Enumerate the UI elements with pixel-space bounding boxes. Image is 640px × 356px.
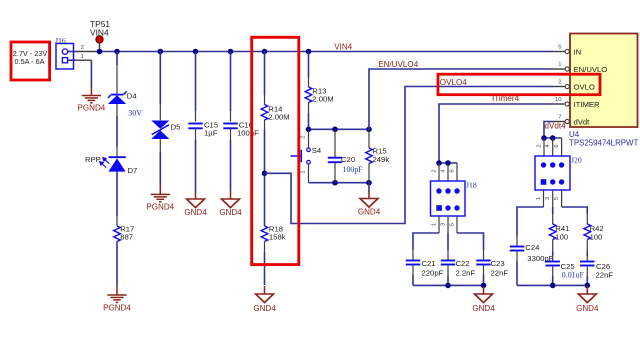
svg-text:2: 2 bbox=[431, 169, 437, 172]
wire J18 bottom stubs bbox=[439, 216, 457, 233]
junction C16 column bbox=[228, 49, 234, 55]
svg-text:D7: D7 bbox=[128, 166, 138, 175]
diode D4 zener bbox=[108, 91, 127, 104]
wire R41 to C25 bbox=[552, 240, 554, 262]
pin number 1 S4 bbox=[301, 170, 307, 173]
svg-text:OVLO4: OVLO4 bbox=[440, 78, 467, 87]
wire J18 pin5 to C23 bbox=[457, 233, 484, 261]
svg-text:VIN4: VIN4 bbox=[90, 27, 109, 37]
diode D7 RPP bbox=[108, 157, 125, 171]
pin number 1 J18 bbox=[431, 223, 437, 226]
PGND4 label at R17 bbox=[103, 304, 131, 313]
R13 value 2.00M bbox=[312, 95, 333, 104]
junction C20 bottom bbox=[332, 180, 338, 186]
wire bus to R13 bbox=[308, 52, 310, 88]
ground GND4 at J18 caps bbox=[475, 286, 493, 303]
svg-text:OVLO: OVLO bbox=[574, 83, 595, 92]
svg-text:7: 7 bbox=[558, 115, 561, 121]
svg-text:GND4: GND4 bbox=[253, 304, 276, 313]
D7 designator bbox=[128, 166, 138, 175]
C21 value 220pF bbox=[422, 268, 444, 277]
wire dVdt4 net U4 pin7 to J20 bbox=[544, 122, 562, 139]
svg-text:IN: IN bbox=[574, 48, 582, 57]
net label ITimer4 bbox=[492, 94, 520, 103]
svg-text:10: 10 bbox=[555, 97, 562, 103]
junction R14 bottom node bbox=[262, 171, 268, 177]
svg-text:RPP: RPP bbox=[85, 155, 101, 164]
R15 value 249k bbox=[373, 155, 390, 164]
GND4 label at C15 bbox=[184, 208, 207, 217]
svg-text:PGND4: PGND4 bbox=[78, 104, 106, 113]
ground GND4 at R18 bbox=[256, 286, 274, 303]
svg-text:GND4: GND4 bbox=[576, 304, 599, 313]
svg-text:100pF: 100pF bbox=[343, 165, 364, 174]
net label EN/UVLO4 bbox=[378, 60, 419, 69]
junction C15 column bbox=[193, 49, 199, 55]
svg-text:dVdt4: dVdt4 bbox=[545, 122, 567, 131]
svg-text:1: 1 bbox=[558, 62, 561, 68]
svg-text:22nF: 22nF bbox=[596, 270, 614, 279]
capacitor C26 bbox=[580, 262, 594, 266]
GND4 label at R15 bbox=[358, 208, 381, 217]
highlight red box R14 R18 bbox=[252, 37, 299, 264]
net label VIN4 bbox=[334, 43, 352, 52]
junction R15 top bbox=[366, 127, 372, 133]
connector J18 bbox=[431, 181, 466, 216]
junction C20 top bbox=[332, 127, 338, 133]
switch S4 bbox=[291, 129, 311, 182]
svg-text:PGND4: PGND4 bbox=[146, 203, 174, 212]
junction S4 top bbox=[306, 127, 312, 133]
svg-text:2: 2 bbox=[81, 45, 84, 51]
C16 value 100nF bbox=[237, 129, 259, 138]
junction TP51 bbox=[97, 49, 103, 55]
wire rail S4 C20 R15 top bbox=[309, 128, 370, 130]
pin number 1 J20 bbox=[536, 197, 542, 200]
C26 value 22nF bbox=[596, 270, 614, 279]
svg-text:C20: C20 bbox=[341, 155, 355, 164]
pin 2 U4 OVLO bbox=[553, 80, 595, 92]
C23 value 22nF bbox=[491, 268, 509, 277]
svg-text:1: 1 bbox=[81, 54, 84, 60]
svg-text:2.00M: 2.00M bbox=[312, 95, 333, 104]
op-amp U4 TPS259474LRPWT body bbox=[570, 34, 638, 128]
resistor R15 bbox=[366, 129, 373, 182]
pin number 3 J20 bbox=[545, 196, 551, 200]
C15 designator bbox=[204, 120, 218, 129]
J16 designator bbox=[55, 36, 66, 45]
svg-text:TPS259474LRPWT: TPS259474LRPWT bbox=[569, 139, 638, 148]
connector J16 bbox=[56, 44, 74, 70]
junction D4 column bbox=[114, 49, 120, 55]
ground GND4 at C15 bbox=[187, 191, 205, 208]
C25 value 0.01uF bbox=[562, 271, 585, 280]
C24 designator bbox=[525, 243, 540, 252]
pin number 4 J18 bbox=[440, 169, 446, 173]
svg-text:EN/UVLO4: EN/UVLO4 bbox=[378, 60, 419, 69]
test point TP51 VIN4 bbox=[96, 36, 103, 52]
J20 designator bbox=[571, 156, 582, 165]
PGND4 label at D5 bbox=[146, 203, 174, 212]
wire bus to R14 bbox=[264, 52, 266, 105]
capacitor C20 bbox=[328, 129, 342, 182]
wire R13 to S4 rail bbox=[308, 103, 310, 130]
capacitor C23 bbox=[476, 261, 490, 265]
svg-text:D5: D5 bbox=[171, 122, 181, 131]
junction D5 column bbox=[158, 49, 164, 55]
ground PGND4 at D5 bbox=[151, 185, 170, 201]
D4 value 30V bbox=[128, 108, 142, 117]
C22 value 2.2nF bbox=[456, 268, 476, 277]
GND4 label at R18 bbox=[253, 304, 276, 313]
wire J18 pin1 to C21 bbox=[413, 233, 439, 261]
junction R13 column bbox=[306, 49, 312, 55]
connector J20 bbox=[535, 156, 570, 190]
pin 7 U4 dVdt bbox=[553, 115, 590, 127]
svg-text:C25: C25 bbox=[561, 262, 575, 271]
net label OVLO4 bbox=[440, 78, 467, 87]
capacitor C24 bbox=[510, 247, 524, 251]
pin 5 U4 IN bbox=[553, 45, 581, 57]
R15 designator bbox=[373, 146, 387, 155]
wire D7 to R17 bbox=[116, 172, 118, 226]
wire bus to D4 bbox=[116, 52, 118, 95]
resistor R13 bbox=[305, 87, 312, 103]
svg-text:J18: J18 bbox=[466, 181, 477, 190]
wire OVLO4 net R14 to U4 pin2 bbox=[265, 87, 554, 224]
VIN4 label under TP51 bbox=[90, 27, 109, 37]
capacitor C21 bbox=[406, 261, 420, 265]
svg-text:249k: 249k bbox=[373, 155, 390, 164]
resistor R41 bbox=[549, 224, 556, 240]
svg-text:C23: C23 bbox=[491, 259, 505, 268]
svg-text:GND4: GND4 bbox=[184, 208, 207, 217]
junction R14 column bbox=[262, 49, 268, 55]
svg-text:1µF: 1µF bbox=[204, 129, 218, 138]
GND4 label at J18 caps bbox=[472, 304, 495, 313]
svg-text:GND4: GND4 bbox=[358, 208, 381, 217]
R42 value 100 bbox=[590, 233, 603, 242]
pin number 2 J18 bbox=[431, 169, 437, 172]
svg-text:GND4: GND4 bbox=[219, 208, 242, 217]
svg-text:GND4: GND4 bbox=[472, 304, 495, 313]
svg-text:U4: U4 bbox=[569, 130, 580, 139]
junction J20 pin4 top bbox=[550, 135, 556, 141]
C20 designator bbox=[341, 155, 355, 164]
junction J18 pin2 top bbox=[436, 160, 442, 166]
C24 value 3300pF bbox=[527, 254, 553, 263]
pin number 2 J20 bbox=[536, 144, 542, 147]
wire bus to C15 bbox=[195, 52, 197, 122]
U4 value TPS259474LRPWT bbox=[569, 139, 638, 148]
D5 designator bbox=[171, 122, 181, 131]
capacitor C15 bbox=[188, 124, 202, 129]
D7 arrows bbox=[100, 158, 110, 168]
junction C25 ground bbox=[550, 283, 556, 289]
PGND4 label at J16 bbox=[78, 104, 106, 113]
svg-text:C22: C22 bbox=[456, 259, 470, 268]
R14 designator bbox=[268, 104, 283, 113]
wire J20 top stubs bbox=[544, 138, 562, 156]
C23 designator bbox=[491, 259, 505, 268]
S4 designator bbox=[312, 146, 322, 155]
junction R15 bottom bbox=[366, 180, 372, 186]
svg-text:J16: J16 bbox=[55, 36, 66, 45]
annotation text 2.7V - 23V / 0.5A - 6A bbox=[13, 49, 48, 66]
svg-text:2.00M: 2.00M bbox=[268, 113, 289, 122]
wire J18 pin3 to C22 bbox=[447, 233, 449, 261]
wire C15 to GND4 bbox=[195, 128, 197, 191]
R17 value 887 bbox=[120, 233, 133, 242]
R41 designator bbox=[555, 224, 569, 233]
wire J16 pin2 stub bbox=[68, 51, 96, 53]
C16 designator bbox=[239, 120, 253, 129]
R14 value 2.00M bbox=[268, 113, 289, 122]
pin number 5 J20 bbox=[554, 196, 560, 200]
ground PGND4 at R17 bbox=[107, 286, 126, 302]
wire R15 to GND4 bbox=[368, 183, 370, 192]
svg-text:158k: 158k bbox=[269, 233, 286, 242]
C20 value 100pF bbox=[343, 165, 364, 174]
RPP label bbox=[85, 155, 101, 164]
highlight red box OVLO4 bbox=[438, 74, 600, 95]
J18 designator bbox=[466, 181, 477, 190]
junction J20 pin2 top bbox=[541, 135, 547, 141]
pin number 3 J18 bbox=[440, 222, 446, 226]
C25 designator bbox=[561, 262, 575, 271]
R18 designator bbox=[269, 224, 283, 233]
wire J16 pin1 to PGND4 bbox=[68, 60, 92, 87]
svg-text:2: 2 bbox=[558, 80, 561, 86]
resistor R18 bbox=[261, 226, 268, 242]
svg-text:PGND4: PGND4 bbox=[103, 304, 131, 313]
wire J20 bottom stubs bbox=[544, 190, 562, 207]
wire R42 to C26 bbox=[586, 240, 588, 262]
ground GND4 at C16 bbox=[222, 191, 240, 208]
wire EN/UVLO4 net bbox=[369, 69, 553, 129]
svg-text:C24: C24 bbox=[525, 243, 540, 252]
svg-text:30V: 30V bbox=[128, 108, 142, 117]
capacitor C16 bbox=[223, 124, 237, 129]
wire J18 caps ground rail bbox=[413, 265, 484, 286]
svg-text:1: 1 bbox=[536, 197, 542, 200]
R13 designator bbox=[312, 86, 326, 95]
svg-text:J20: J20 bbox=[571, 156, 582, 165]
diode D5 TVS bbox=[151, 121, 169, 140]
pin number 2 S4 bbox=[301, 135, 307, 138]
svg-text:220pF: 220pF bbox=[422, 268, 444, 277]
svg-text:VIN4: VIN4 bbox=[334, 43, 352, 52]
ground GND4 at J20 caps bbox=[578, 286, 596, 303]
svg-text:100: 100 bbox=[590, 233, 603, 242]
GND4 label at J20 caps bbox=[576, 304, 599, 313]
svg-text:2: 2 bbox=[301, 135, 307, 138]
svg-text:1: 1 bbox=[301, 170, 307, 173]
svg-text:1: 1 bbox=[431, 223, 437, 226]
svg-text:887: 887 bbox=[120, 233, 133, 242]
pin number 1 J16 bbox=[81, 54, 84, 60]
wire J20 caps ground rail bbox=[517, 251, 587, 286]
net label dVdt4 bbox=[545, 122, 567, 131]
svg-text:22nF: 22nF bbox=[491, 268, 509, 277]
resistor R14 bbox=[261, 105, 268, 121]
junction C26 ground bbox=[585, 283, 591, 289]
wire ITimer4 net U4 pin10 to J18 bbox=[439, 104, 553, 163]
resistor R17 bbox=[114, 226, 121, 242]
pin number 2 J16 bbox=[81, 45, 84, 51]
capacitor C25 bbox=[546, 262, 560, 266]
wire J20 pin5 to R42 bbox=[562, 207, 588, 224]
R42 designator bbox=[590, 224, 604, 233]
ground GND4 at R15 bbox=[360, 191, 378, 208]
R41 value 100 bbox=[555, 233, 568, 242]
pin number 6 J18 bbox=[449, 169, 455, 173]
R17 designator bbox=[120, 224, 134, 233]
U4 designator bbox=[569, 130, 580, 139]
GND4 label at C16 bbox=[219, 208, 242, 217]
svg-text:S4: S4 bbox=[312, 146, 322, 155]
junction J18 pin4 top bbox=[445, 160, 451, 166]
svg-text:C21: C21 bbox=[422, 259, 436, 268]
pin number 6 J20 bbox=[554, 144, 560, 148]
wire J20 pin3 to R41 bbox=[552, 207, 554, 224]
svg-text:0.01uF: 0.01uF bbox=[562, 271, 585, 280]
wire R17 to PGND4 bbox=[116, 242, 118, 287]
svg-text:D4: D4 bbox=[127, 91, 138, 100]
C22 designator bbox=[456, 259, 470, 268]
wire D5 to PGND4 bbox=[159, 139, 161, 186]
capacitor C22 bbox=[441, 261, 455, 265]
junction C23 ground bbox=[481, 283, 487, 289]
svg-text:100nF: 100nF bbox=[237, 129, 259, 138]
C26 designator bbox=[596, 262, 610, 271]
junction C22 ground bbox=[445, 283, 451, 289]
svg-text:2: 2 bbox=[536, 144, 542, 147]
pin 10 U4 ITIMER bbox=[553, 97, 600, 109]
wire bus to C16 bbox=[230, 52, 232, 122]
pin number 5 J18 bbox=[449, 222, 455, 226]
R18 value 158k bbox=[269, 233, 286, 242]
pin 1 U4 EN/UVLO bbox=[553, 62, 607, 74]
TP51 label bbox=[90, 19, 110, 29]
C21 designator bbox=[422, 259, 436, 268]
svg-text:EN/UVLO: EN/UVLO bbox=[574, 65, 608, 74]
resistor R42 bbox=[584, 224, 591, 240]
svg-text:dVdt: dVdt bbox=[574, 118, 591, 127]
wire R14 to R18 junction bbox=[264, 120, 266, 226]
svg-text:100: 100 bbox=[555, 233, 568, 242]
wire C16 to GND4 bbox=[230, 128, 232, 191]
pin number 4 J20 bbox=[545, 144, 551, 148]
C15 value 1uF bbox=[204, 129, 218, 138]
wire J18 top stubs bbox=[439, 163, 457, 181]
wire J20 pin1 to C24 bbox=[517, 207, 544, 247]
wire R18 to GND4 bbox=[264, 242, 266, 286]
svg-text:ITIMER: ITIMER bbox=[574, 100, 600, 109]
wire VIN4 bus bbox=[96, 51, 553, 53]
svg-text:2.2nF: 2.2nF bbox=[456, 268, 476, 277]
D4 designator bbox=[127, 91, 138, 100]
annotation red box input rating bbox=[11, 42, 50, 80]
ground PGND4 at J16 bbox=[82, 87, 101, 103]
wire rail S4 C20 R15 bottom bbox=[309, 182, 370, 184]
wire D4 to D7 bbox=[116, 104, 118, 157]
wire bus to D5 bbox=[159, 52, 161, 121]
svg-text:0.5A - 6A: 0.5A - 6A bbox=[14, 57, 44, 66]
